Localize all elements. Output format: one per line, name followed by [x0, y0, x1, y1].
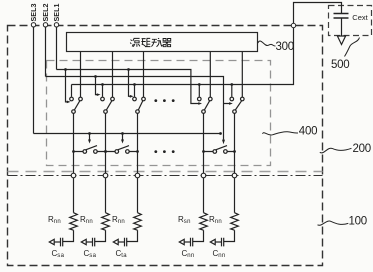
actuator arm SW3 — [129, 70, 131, 97]
wire share line stub to SW3 — [134, 85, 136, 97]
wire data line 5 — [234, 114, 236, 174]
switch SW6 (adjacent-column share, columns 1-2) — [72, 132, 107, 153]
wire — [137, 178, 139, 213]
wire SEL3 bus — [34, 133, 221, 135]
switch SW3 (driver/share select, column 3) — [127, 52, 145, 114]
wire — [193, 230, 204, 241]
capacitor C1 — [61, 238, 63, 247]
pixel electrode arrow — [184, 241, 190, 243]
capacitor C2 — [93, 238, 95, 247]
blade SW5 — [235, 101, 241, 110]
junction on share line — [101, 83, 104, 86]
wire to external capacitor — [294, 3, 342, 25]
ellipsis dots switch row 1 — [154, 99, 174, 102]
capacitor C3 — [125, 238, 127, 247]
reference label 200 with leader — [320, 143, 371, 155]
wire driver output to SW2 — [112, 52, 114, 98]
pixel electrode arrow — [118, 241, 124, 243]
svg-text:500: 500 — [331, 59, 349, 71]
terminal SEL1 — [52, 4, 61, 70]
wire — [127, 230, 138, 241]
svg-text:Cext: Cext — [352, 13, 368, 22]
arrowhead SW8 actuator — [222, 140, 225, 145]
reference label 100 with leader — [318, 216, 367, 228]
wire — [63, 230, 74, 241]
pixel electrode arrow — [54, 241, 60, 243]
wire share line stub to SW2 — [102, 85, 104, 97]
wire SEL2 bus with actuator arms for SW5 and SW8 — [46, 77, 230, 140]
wire contacts to data lines SW8 — [204, 151, 235, 153]
wire — [224, 230, 235, 241]
wire data line 2 — [105, 114, 107, 174]
svg-text:SEL1: SEL1 — [52, 4, 61, 22]
column 3 load — [112, 114, 141, 259]
junctions on data lines — [72, 150, 75, 153]
wire contacts to data lines SW7 — [106, 151, 138, 153]
wire share line stub to SW5 — [231, 85, 233, 97]
node data line 2 on boundary — [103, 173, 108, 178]
blade SW7 — [118, 146, 129, 150]
blade SW3 — [138, 101, 142, 110]
capacitor C4 — [191, 238, 193, 247]
resistor R4 — [200, 213, 208, 231]
wire data line 1 — [73, 114, 75, 174]
column 2 load — [80, 114, 109, 259]
wire data line 4 — [203, 114, 205, 174]
blade SW6 — [86, 146, 97, 150]
wire — [234, 178, 236, 213]
blade SW2 — [106, 101, 111, 110]
svg-text:400: 400 — [299, 126, 317, 138]
column 5 load — [209, 114, 238, 259]
junction on SEL3 bus — [88, 132, 91, 135]
blade SW8 — [216, 146, 227, 150]
ground symbol — [337, 36, 345, 45]
switch SW1 (driver/share select, column 1) — [64, 52, 82, 114]
display area top border 100 — [8, 175, 323, 177]
pixel electrode arrow — [215, 241, 221, 243]
wire driver output to SW5 — [241, 52, 243, 98]
actuator arm SW7 — [122, 134, 124, 141]
contacts and pole SW1 — [70, 97, 74, 101]
column 4 load — [178, 114, 207, 259]
external capacitor Cext — [334, 13, 369, 36]
switch block box 400 — [47, 61, 271, 166]
node data line 1 on boundary — [71, 173, 76, 178]
contacts and pole SW5 — [230, 97, 234, 101]
junction on select bus — [127, 68, 130, 71]
contacts SW6 — [83, 150, 87, 154]
wire driver output to SW3 — [143, 52, 145, 98]
junction on share line — [230, 83, 233, 86]
contacts SW8 — [213, 150, 217, 154]
node share line on panel boundary — [291, 23, 295, 27]
actuator arm SW1 — [66, 70, 68, 102]
junction on share line — [133, 83, 136, 86]
wire driver output to SW4 — [209, 52, 211, 98]
panel inner boundary grey dashed line — [8, 171, 323, 173]
source driver label (CJK glyph strokes) — [130, 38, 171, 47]
junction on SEL3 bus — [121, 132, 124, 135]
wire contacts to data lines SW6 — [74, 151, 106, 153]
svg-text:SEL2: SEL2 — [41, 4, 50, 22]
pixel electrode arrow — [86, 241, 92, 243]
contacts and pole SW4 — [198, 97, 202, 101]
switch SW7 (adjacent-column share, columns 2-3) — [104, 132, 139, 153]
wire share line stub to SW1 — [71, 85, 73, 97]
resistor R1 — [70, 213, 78, 231]
node data line 3 on boundary — [135, 173, 140, 178]
source driver box U300 — [67, 33, 258, 52]
external capacitor box 500 — [329, 6, 372, 36]
junction on SEL3 bus — [219, 132, 222, 135]
wire SEL1 bus with actuator arm for SW4 — [57, 70, 199, 104]
resistor R5 — [231, 213, 239, 231]
terminal SEL2 — [41, 4, 50, 77]
column 1 load — [48, 114, 77, 259]
node data line 4 on boundary — [201, 173, 206, 178]
blade SW4 — [204, 101, 209, 110]
wire data line 3 — [137, 114, 139, 174]
actuator arm SW6 — [89, 134, 91, 141]
junction on share line — [198, 83, 201, 86]
junctions on data lines — [104, 150, 107, 153]
terminal SEL3 — [29, 4, 38, 134]
wire share line stub to SW4 — [198, 85, 200, 97]
switch SW4 (driver/share select, column n-1) — [198, 52, 213, 114]
wire driver output to SW1 — [80, 52, 82, 98]
resistor R3 — [134, 213, 142, 231]
wire — [73, 178, 75, 213]
junctions on data lines — [202, 150, 205, 153]
actuator arm SW2 — [96, 77, 98, 95]
arrowhead SW4 actuator — [198, 102, 202, 105]
junction on select bus — [64, 68, 67, 71]
contacts and pole SW3 — [133, 97, 137, 101]
panel outline box 200 — [8, 26, 323, 266]
wire — [203, 178, 205, 213]
svg-text:300: 300 — [276, 41, 294, 53]
switch SW5 (driver/share select, column n) — [230, 52, 244, 114]
reference label 300 with leader — [258, 41, 294, 53]
node data line 5 on boundary — [232, 173, 237, 178]
blade SW1 — [74, 101, 79, 110]
switch SW2 (driver/share select, column 2) — [94, 52, 114, 114]
reference label 400 with leader — [263, 126, 318, 138]
arrowhead SW5 actuator — [229, 102, 233, 105]
switch SW8 (adjacent-column share, columns n-1,n) — [202, 132, 236, 153]
reference label 500 with leader — [331, 38, 360, 72]
contacts SW7 — [115, 150, 119, 154]
junction on select bus — [94, 75, 97, 78]
resistor R2 — [102, 213, 110, 231]
svg-text:200: 200 — [353, 143, 371, 155]
wire common share line to Cext — [72, 28, 294, 85]
wire — [105, 178, 107, 213]
capacitor C5 — [222, 238, 224, 247]
ellipsis dots switch row 2 — [154, 150, 174, 153]
svg-text:SEL3: SEL3 — [29, 4, 38, 22]
wire — [95, 230, 106, 241]
svg-text:100: 100 — [349, 216, 367, 228]
contacts and pole SW2 — [101, 97, 105, 101]
